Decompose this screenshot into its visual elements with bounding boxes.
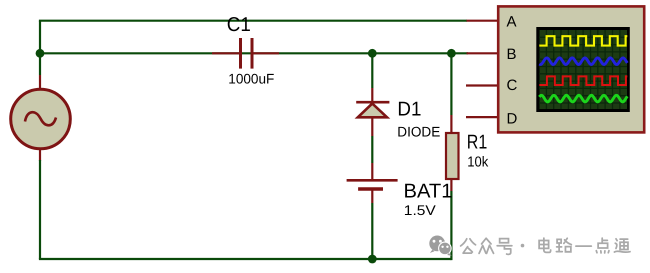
waveform channel C (red square) xyxy=(539,76,627,85)
AC source xyxy=(11,89,71,149)
glyph 号 xyxy=(497,239,512,255)
wire AC source bottom lead xyxy=(39,149,41,259)
wire AC source top lead xyxy=(39,53,41,89)
svg-text:C1: C1 xyxy=(227,14,251,36)
waveform channel B (blue sine) xyxy=(539,58,627,65)
wire top horizontal (net to scope A) xyxy=(39,20,467,22)
label C1 xyxy=(227,14,251,36)
oscilloscope screen xyxy=(536,27,630,112)
waveform channel A (yellow square) xyxy=(539,36,627,45)
glyph 通 xyxy=(614,239,630,252)
value 10k xyxy=(467,155,489,171)
svg-text:D: D xyxy=(507,111,518,128)
svg-text:A: A xyxy=(507,14,517,31)
oscilloscope body xyxy=(498,6,644,132)
battery BAT1 xyxy=(347,180,398,189)
label BAT1 xyxy=(404,181,453,203)
value 1000uF xyxy=(228,71,274,87)
pin label B xyxy=(507,46,517,63)
wire bottom horizontal xyxy=(39,258,452,260)
junction dot at (40,53) xyxy=(36,49,45,58)
oscilloscope pin A lead xyxy=(467,20,500,22)
junction dot at (452,53) xyxy=(447,49,456,58)
waveform channel D (green sine) xyxy=(539,95,627,102)
glyph 电 xyxy=(539,238,551,252)
svg-text:B: B xyxy=(507,46,517,63)
glyph 路 xyxy=(556,238,571,252)
capacitor C1 xyxy=(212,38,279,69)
value 1.5V xyxy=(404,202,437,218)
svg-text:C: C xyxy=(507,77,518,94)
svg-text:DIODE: DIODE xyxy=(397,124,440,140)
watermark text 公众号 · 电路一点通 xyxy=(461,238,630,254)
svg-text:10k: 10k xyxy=(467,155,489,171)
label R1 xyxy=(467,132,488,154)
svg-text:1000uF: 1000uF xyxy=(228,71,274,87)
svg-text:1.5V: 1.5V xyxy=(404,202,437,218)
wire diode branch vertical xyxy=(371,53,373,259)
glyph middle dot xyxy=(521,244,525,248)
watermark wechat icon xyxy=(429,236,451,256)
glyph 点 xyxy=(596,238,609,253)
value DIODE xyxy=(397,124,440,140)
oscilloscope pin D lead xyxy=(466,116,499,118)
oscilloscope pin B lead xyxy=(467,52,500,54)
svg-text:D1: D1 xyxy=(397,99,421,121)
resistor R1 xyxy=(446,133,459,179)
svg-text:R1: R1 xyxy=(467,132,488,154)
glyph 众 xyxy=(479,238,493,253)
glyph 公 xyxy=(461,239,476,253)
junction dot at (372,53) xyxy=(368,49,377,58)
oscilloscope pin C lead xyxy=(466,84,499,86)
wire resistor branch vertical xyxy=(450,53,452,260)
pin label C xyxy=(507,77,518,94)
svg-text:BAT1: BAT1 xyxy=(404,181,453,203)
junction dot at (372,259) xyxy=(368,255,377,264)
diode D1 xyxy=(356,102,389,117)
pin label A xyxy=(507,14,517,31)
pin label D xyxy=(507,111,518,128)
wire top-left vertical xyxy=(39,21,41,54)
wire second horizontal (net to scope B) xyxy=(40,52,468,54)
glyph 一 xyxy=(576,245,591,247)
label D1 xyxy=(397,99,421,121)
